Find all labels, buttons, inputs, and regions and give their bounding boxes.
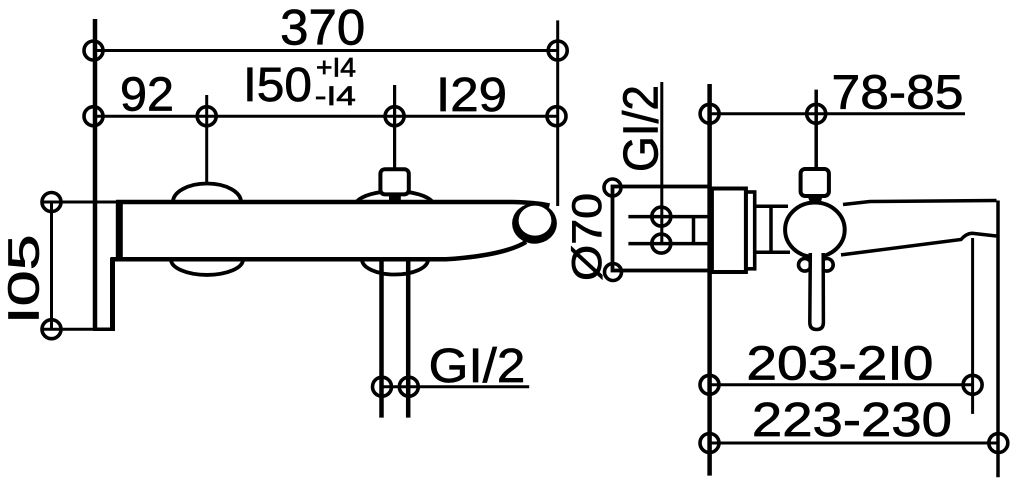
stem tab under square bbox=[389, 193, 401, 203]
stem to valve square bbox=[393, 85, 396, 171]
extension line right (x557) bbox=[556, 20, 559, 206]
main left extension vertical bbox=[707, 84, 712, 476]
spout body top edge bbox=[116, 202, 550, 206]
svg-text:Ø70: Ø70 bbox=[563, 193, 610, 281]
svg-text:223-230: 223-230 bbox=[752, 394, 952, 447]
marker inlet lower bbox=[652, 234, 671, 253]
lever bbox=[810, 253, 824, 330]
neck joint vertical bbox=[769, 206, 773, 252]
extension aerator vertical bbox=[971, 238, 974, 414]
pipe marker connector bbox=[382, 385, 409, 388]
dome 2 bottom arc bbox=[362, 260, 428, 275]
left end cap bbox=[116, 201, 123, 262]
lever ear right bbox=[821, 259, 834, 272]
handle knob square bbox=[801, 169, 829, 196]
svg-text:I50: I50 bbox=[243, 59, 312, 112]
spout side bottom edge bbox=[841, 233, 997, 255]
dimension 203-210 line bbox=[710, 383, 973, 386]
spout side top edge bbox=[843, 201, 997, 205]
marker line2 x395 bbox=[385, 107, 404, 126]
inlet line lower bbox=[628, 242, 709, 246]
marker 105 top bbox=[42, 193, 61, 212]
svg-text:I05: I05 bbox=[0, 234, 49, 324]
svg-text:I29: I29 bbox=[436, 69, 507, 122]
inlet line upper bbox=[628, 215, 709, 219]
cartridge block bbox=[712, 189, 746, 273]
extension 105 bottom bbox=[42, 328, 115, 331]
dome 2 top arc bbox=[356, 191, 433, 202]
wall line (left extension line) bbox=[93, 19, 98, 330]
marker inlet upper bbox=[652, 207, 671, 226]
inlet connector vertical bbox=[692, 217, 696, 244]
marker 223-230 right bbox=[989, 434, 1008, 453]
marker pipe left bbox=[373, 377, 392, 396]
dimension line 92/150/129 bbox=[94, 115, 557, 118]
dimension 105 vertical line bbox=[50, 202, 53, 329]
marker 370 right bbox=[548, 41, 567, 60]
cartridge circle bbox=[785, 203, 845, 258]
svg-text:GI/2: GI/2 bbox=[429, 340, 526, 393]
dome 1 top arc bbox=[173, 184, 241, 202]
wall bracket down-leg bbox=[110, 258, 115, 330]
lever ear left bbox=[799, 259, 812, 272]
supply pipe right line bbox=[406, 259, 411, 418]
collar ring bbox=[746, 192, 755, 269]
marker 105 bottom bbox=[42, 320, 61, 339]
extension knob vertical bbox=[814, 90, 818, 170]
neck top line bbox=[755, 205, 788, 209]
flange corner circle bottom bbox=[605, 264, 622, 281]
marker 78-85 right bbox=[807, 104, 826, 123]
dimension 78-85 line bbox=[710, 112, 965, 115]
marker line2 x207 bbox=[197, 107, 216, 126]
G1/2 leader left view bbox=[409, 385, 529, 388]
neck bottom line bbox=[755, 251, 790, 255]
valve square bbox=[380, 169, 408, 194]
marker 370 left bbox=[84, 41, 103, 60]
svg-text:78-85: 78-85 bbox=[832, 66, 964, 119]
dimension 223-230 line bbox=[710, 442, 999, 445]
svg-text:GI/2: GI/2 bbox=[615, 85, 669, 172]
extension tip vertical bbox=[996, 201, 1000, 478]
body outline bbox=[613, 187, 710, 271]
svg-text:92: 92 bbox=[120, 69, 174, 122]
spout outlet ring inner bbox=[519, 206, 552, 236]
marker 78-85 left bbox=[700, 104, 719, 123]
stem to dome 1 bbox=[205, 95, 208, 185]
G1/2 leader right view bbox=[660, 82, 663, 244]
marker 223-230 left bbox=[700, 434, 719, 453]
marker line2 x93 bbox=[84, 107, 103, 126]
knob neck bbox=[808, 196, 823, 204]
marker 203-210 left bbox=[700, 375, 719, 394]
extension 105 top bbox=[42, 201, 123, 204]
svg-text:-I4: -I4 bbox=[315, 81, 356, 111]
svg-text:+I4: +I4 bbox=[316, 52, 356, 82]
marker line2 x556 bbox=[547, 107, 566, 126]
marker 203-210 right bbox=[963, 375, 982, 394]
spout outlet ring outer bbox=[512, 203, 557, 244]
svg-text:370: 370 bbox=[280, 0, 365, 56]
flange corner circle top bbox=[604, 179, 621, 196]
dome 1 bottom arc bbox=[171, 260, 243, 275]
spout body bottom edge bbox=[111, 242, 527, 259]
svg-text:203-2I0: 203-2I0 bbox=[746, 338, 933, 391]
wall bracket bottom bbox=[93, 328, 115, 332]
dimension line 370 bbox=[94, 49, 558, 52]
supply pipe left line bbox=[379, 259, 384, 418]
marker pipe right bbox=[399, 377, 418, 396]
